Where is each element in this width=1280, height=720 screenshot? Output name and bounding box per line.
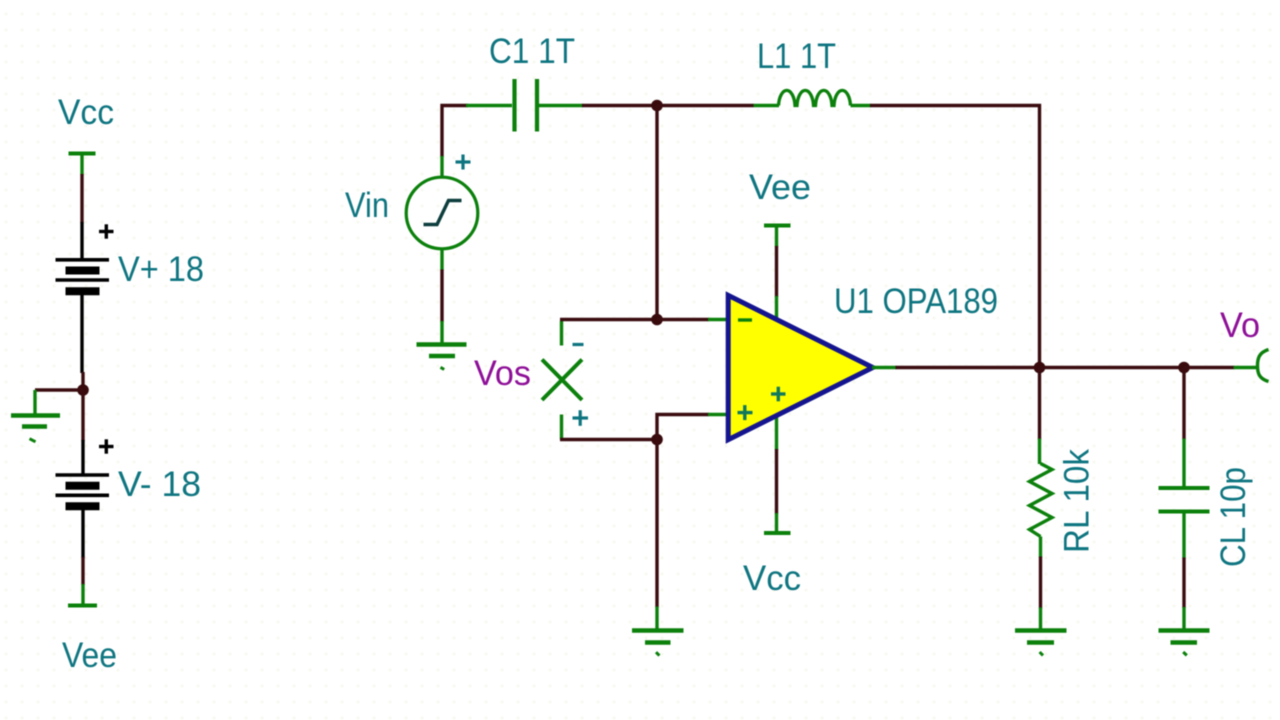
node E (non-inverting junction) (651, 434, 663, 446)
Vee terminal (op-amp supply) (764, 226, 791, 248)
battery V+ 18 (56, 222, 205, 373)
wire Vin to ground (lead) (440, 249, 443, 271)
Vin polarity + (456, 155, 471, 170)
wire node E to ground (655, 440, 658, 608)
Vo pin lead (1234, 366, 1260, 369)
resistor RL bottom lead (1039, 537, 1042, 558)
wire Vin lead to ground (440, 270, 443, 323)
output pin Vo (1258, 350, 1269, 382)
resistor RL top lead (1038, 439, 1041, 465)
wire battery V+ to node A (81, 372, 84, 390)
svg-text:Vee: Vee (749, 168, 811, 207)
ground (below Vin) (417, 321, 467, 370)
Vcc terminal (op-amp supply) (764, 531, 791, 535)
wire node F to Vo pin (1184, 366, 1235, 369)
svg-text:Vcc: Vcc (743, 559, 801, 598)
wire Vos plus to node E (560, 438, 657, 441)
wire node A to battery V- (81, 390, 84, 441)
svg-text:RL 10k: RL 10k (1058, 449, 1097, 553)
op-amp output lead (872, 366, 897, 369)
wire node D to RL (1038, 368, 1041, 440)
wire op-amp output to node D (896, 366, 1040, 369)
svg-text:Vcc: Vcc (58, 93, 114, 132)
node C (inverting input) (651, 314, 663, 326)
source Vin (406, 177, 478, 249)
capacitor CL bottom lead (1182, 513, 1185, 559)
ground (below CL) (1159, 607, 1210, 655)
wire L1 to node D (corner) (870, 106, 1040, 369)
wire C1 to node B (582, 104, 657, 107)
source Vos (offset generator) (542, 321, 588, 440)
wire node F to CL (1182, 368, 1185, 440)
wire CL to ground (1182, 558, 1185, 609)
wire op-amp V- pin (775, 416, 778, 532)
wire node C to op-amp minus input (657, 318, 709, 321)
wire C1 left lead (466, 104, 512, 107)
node A (supply midpoint) (77, 384, 89, 396)
inductor L1 (779, 90, 851, 105)
svg-text:L1 1T: L1 1T (757, 37, 836, 76)
node F (CL / Vo) (1178, 362, 1190, 374)
wire node B to L1 (657, 104, 754, 107)
op-amp minus input lead (708, 318, 730, 321)
wire battery V- to Vee terminal (81, 557, 84, 585)
wire Vos minus to node C (560, 318, 657, 321)
svg-text:C1 1T: C1 1T (489, 32, 575, 71)
svg-text:V- 18: V- 18 (118, 465, 201, 504)
inductor L1 right lead (851, 104, 872, 107)
op-amp U1 (728, 295, 873, 439)
ground (below RL) (1015, 608, 1067, 656)
ground (below node E) (632, 607, 684, 656)
svg-text:Vin: Vin (345, 186, 389, 225)
capacitor CL top lead (1182, 439, 1185, 488)
capacitor CL 10p (1159, 488, 1210, 512)
wire C1 corner to Vin source (440, 156, 443, 178)
wire RL to ground (1039, 557, 1042, 609)
wire C1 right lead (539, 104, 583, 107)
wire node D to node F (1040, 366, 1185, 369)
inductor L1 left lead (754, 104, 780, 107)
wire Vin to C1 (corner) (442, 106, 468, 158)
node D (output / RL) (1034, 362, 1046, 374)
op-amp plus input lead (708, 413, 730, 416)
svg-text:Vo: Vo (1220, 306, 1260, 345)
wire node B to node C (655, 106, 658, 320)
wire node A to ground (35, 388, 83, 391)
wire Vcc terminal to battery V+ (80, 174, 83, 223)
Vcc terminal (left rail) (69, 154, 96, 176)
wire node E to op-amp plus input (657, 415, 709, 440)
node B (C1 / L1 junction) (651, 100, 663, 112)
battery V- 18 (56, 439, 202, 558)
svg-text:CL 10p: CL 10p (1214, 467, 1253, 567)
svg-text:Vos: Vos (474, 354, 531, 393)
svg-text:V+ 18: V+ 18 (118, 250, 204, 289)
resistor RL 10k (1030, 464, 1053, 537)
ground (left rail) (11, 390, 60, 442)
Vee terminal (left rail) (68, 584, 97, 606)
svg-text:Vee: Vee (62, 636, 117, 675)
wire Vee terminal to op-amp V+ pin (775, 246, 778, 319)
svg-text:U1 OPA189: U1 OPA189 (834, 282, 998, 321)
capacitor C1 (515, 79, 538, 132)
